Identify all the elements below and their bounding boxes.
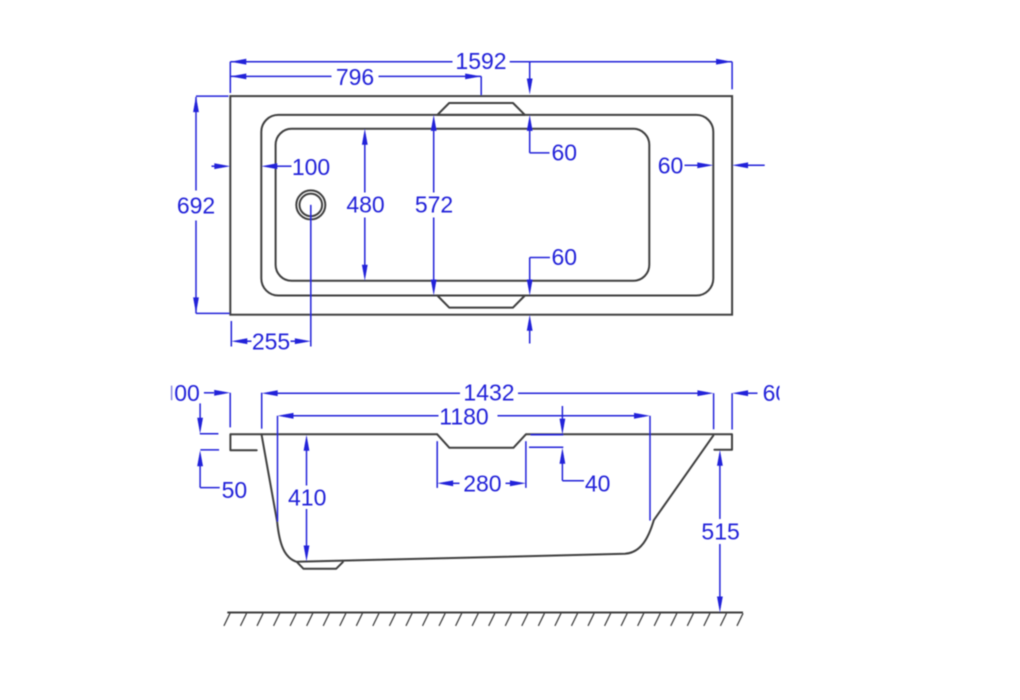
dimension 100 left rim overhang, side view (clipped text) <box>172 380 231 427</box>
svg-text:692: 692 <box>177 193 215 219</box>
svg-text:60: 60 <box>552 139 578 165</box>
svg-text:515: 515 <box>701 519 739 545</box>
svg-text:1592: 1592 <box>455 48 506 74</box>
dimension 60 rim inset upper, top view <box>527 62 577 165</box>
side view: rim deck line left of grip recess <box>230 433 437 435</box>
svg-text:796: 796 <box>336 64 374 90</box>
svg-text:572: 572 <box>415 192 453 218</box>
dimension 480 floor width, top view <box>346 129 384 281</box>
svg-text:100: 100 <box>292 154 330 180</box>
svg-text:410: 410 <box>288 484 326 510</box>
dimension 255 drain position, top view <box>231 205 310 355</box>
top view: bottom grip ledge trapezoid <box>437 296 525 308</box>
bathtub top view: inner rim (tub opening) rounded rectangle <box>261 115 713 296</box>
dimension 280 grip recess length, side view <box>437 441 526 496</box>
dimension 1432 tub body length, side view <box>262 380 714 430</box>
top view: drain waste inner circle <box>300 194 323 217</box>
side view: right rim lip <box>714 434 732 449</box>
svg-text:480: 480 <box>346 192 384 218</box>
bathtub top view: tub floor outline rounded rectangle <box>276 129 650 281</box>
dimension 60 right rim overhang, side view (clipped text) <box>732 380 788 430</box>
dimension 796 centre-line position, top view <box>230 64 481 95</box>
dimension 1592 overall width, top view <box>230 48 732 93</box>
side view: foot plinth trapezoid <box>297 562 343 569</box>
dimension 692 overall width, top view left side <box>177 96 230 313</box>
svg-text:60: 60 <box>552 244 578 270</box>
top view: drain waste outer circle <box>296 190 325 219</box>
dimension 515 overall height, side view <box>701 450 739 613</box>
dimension 100 rim inset, top view left <box>212 154 331 180</box>
bathtub top view: outer rim rectangle <box>230 96 732 315</box>
side view: tub body profile <box>262 434 714 562</box>
side view: rim deck line right of grip recess <box>526 433 732 435</box>
ground / floor hatch line <box>224 613 743 626</box>
dimension 1180 floor length, side view <box>278 403 651 521</box>
svg-text:60: 60 <box>658 153 684 179</box>
dimension 572 rim opening width, top view <box>415 115 453 296</box>
svg-text:50: 50 <box>222 477 248 503</box>
dimension 40 grip recess depth, side view <box>529 406 610 497</box>
svg-text:255: 255 <box>252 329 290 355</box>
dimension 60 rim inset right, top view <box>658 153 765 179</box>
svg-text:1180: 1180 <box>439 403 488 429</box>
svg-text:280: 280 <box>463 471 501 497</box>
dimension 410 internal depth, side view <box>288 435 326 562</box>
side view: grip recess notch <box>437 434 526 448</box>
svg-text:40: 40 <box>585 471 611 497</box>
svg-text:00: 00 <box>174 380 200 406</box>
dimension 60 rim inset lower, top view <box>527 244 577 344</box>
top view: top grip ledge trapezoid <box>437 103 525 115</box>
side view: left rim lip <box>230 434 256 450</box>
svg-text:1432: 1432 <box>463 380 514 406</box>
dimension 50 rim lip height, side view <box>197 403 247 503</box>
